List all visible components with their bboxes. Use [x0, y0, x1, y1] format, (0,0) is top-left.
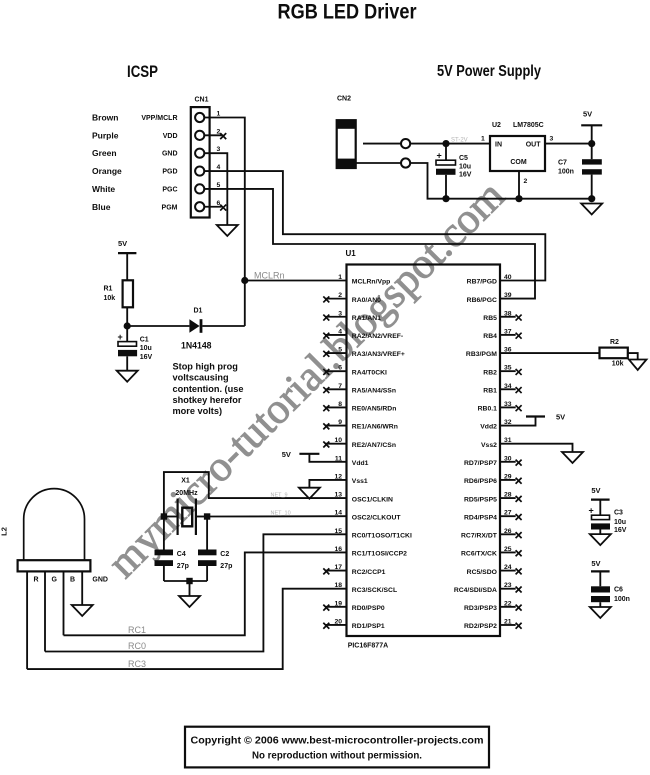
wire CN1 pin1 VPP/MCLR to MCLRn node (down to D1 wire) [204, 118, 245, 327]
note text about programming voltage [173, 362, 244, 417]
U1 pin 9 RE1/AN6/WRn (left stub, number, name) [323, 419, 398, 431]
U1 pin 40 RB7/PGD (right stub, number, name) [467, 274, 512, 286]
U1 pin 21 RD2/PSP2 (right stub, number, name) [464, 618, 522, 630]
wire LED B lead down to RC1 [63, 571, 65, 635]
5V supply symbol above R1 [118, 239, 136, 253]
svg-text:3: 3 [217, 146, 221, 153]
svg-text:RB4: RB4 [483, 333, 497, 340]
wire LED R lead down to RC3 [26, 571, 28, 669]
svg-text:5V: 5V [591, 559, 600, 568]
regulator U2 LM7805C [490, 136, 545, 171]
svg-text:C7: C7 [558, 159, 567, 166]
svg-text:Stop high prog: Stop high prog [173, 362, 238, 372]
svg-text:U2: U2 [492, 122, 501, 129]
watermark mymicro-tutorial.blogspot.com [99, 172, 514, 587]
CN1 pin 6 stub with no-connect X [204, 205, 226, 211]
capacitor C3 (electrolytic) [589, 500, 611, 534]
svg-text:10: 10 [334, 437, 342, 444]
C5 labels [459, 155, 472, 179]
svg-text:R2: R2 [610, 339, 619, 346]
wire CN1 pin3 GND to ground [204, 153, 227, 225]
svg-text:MCLRn/Vpp: MCLRn/Vpp [352, 279, 391, 286]
junction COM on ground rail [515, 195, 522, 202]
connector CN1 [191, 107, 210, 217]
C7 labels [558, 159, 574, 175]
U1 pin 17 RC2/CCP1 (left stub, number, name) [323, 564, 385, 576]
svg-text:RC2/CCP1: RC2/CCP1 [352, 569, 386, 576]
wire R1 bottom to junction [126, 307, 128, 326]
U1 pin 19 RD0/PSP0 (left stub, number, name) [323, 600, 385, 612]
R2 labels [610, 339, 624, 368]
U1 pin 14 OSC2/CLKOUT (left stub, number, name) [334, 510, 401, 522]
wire U1 pin 31 Vss2 to ground [500, 444, 573, 452]
U1 pin 35 RB2 (right stub, number, name) [483, 365, 521, 377]
svg-text:21: 21 [504, 618, 512, 625]
capacitor C7 100n [582, 144, 602, 199]
U1 pin 32 Vdd2 (right stub, number, name) [480, 419, 512, 431]
svg-text:RE2/AN7/CSn: RE2/AN7/CSn [352, 442, 396, 449]
svg-text:26: 26 [504, 528, 512, 535]
svg-text:+: + [118, 332, 123, 342]
wire 5V to U1 pin 32 [500, 417, 536, 426]
5V supply symbol above C6 [591, 559, 610, 571]
svg-text:9: 9 [338, 419, 342, 426]
svg-text:RA2/AN2/VREF-: RA2/AN2/VREF- [352, 333, 403, 340]
resistor R1 [123, 280, 133, 307]
svg-text:RA5/AN4/SSn: RA5/AN4/SSn [352, 387, 396, 394]
svg-text:39: 39 [504, 292, 512, 299]
wire junction to D1 anode [127, 325, 189, 327]
U1 pin 36 RB3/PGM (right stub, number, name) [466, 347, 512, 359]
svg-text:RD1/PSP1: RD1/PSP1 [352, 623, 385, 630]
svg-text:5V: 5V [556, 413, 565, 422]
U1 pin 26 RC7/RX/DT (right stub, number, name) [461, 528, 522, 540]
svg-text:Copyright © 2006 www.best-micr: Copyright © 2006 www.best-microcontrolle… [191, 736, 484, 747]
U1 pin 10 RE2/AN7/CSn (left stub, number, name) [323, 437, 396, 449]
C4 labels [177, 551, 189, 570]
U1 pin 25 RC6/TX/CK (right stub, number, name) [461, 546, 522, 558]
svg-text:Orange: Orange [92, 166, 122, 176]
wire U1 pin 14 OSC2 to crystal right [207, 515, 346, 517]
svg-text:RC5/SDO: RC5/SDO [467, 569, 497, 576]
svg-text:MCLRn: MCLRn [254, 271, 285, 281]
svg-text:Brown: Brown [92, 113, 118, 123]
5V supply symbol above C3 [591, 486, 610, 500]
svg-text:RD0/PSP0: RD0/PSP0 [352, 605, 385, 612]
svg-text:22: 22 [504, 600, 512, 607]
U1 pin 23 RC4/SDI/SDA (right stub, number, name) [454, 582, 522, 594]
capacitor C4 27p [155, 517, 174, 582]
U1 pin 30 RD7/PSP7 (right stub, number, name) [464, 455, 522, 467]
ground symbol below LED [72, 605, 93, 616]
svg-text:5V Power Supply: 5V Power Supply [437, 63, 541, 80]
svg-text:GND: GND [162, 151, 178, 158]
wire D1 cathode to MCLRn junction [202, 325, 244, 327]
svg-text:8: 8 [338, 401, 342, 408]
U2 labels [492, 122, 544, 129]
wire 5V bar to R1 top [126, 253, 128, 280]
svg-text:NET_9: NET_9 [271, 493, 288, 499]
svg-text:6: 6 [338, 365, 342, 372]
svg-text:C3: C3 [614, 510, 623, 517]
wire CN1 pin4 PGD to U1 pin40 RB7/PGD [204, 171, 545, 280]
svg-text:10k: 10k [104, 295, 116, 302]
svg-text:10k: 10k [612, 361, 624, 368]
U1 pin 1 MCLRn/Vpp (left stub, number, name) [338, 274, 390, 286]
U1 pin 7 RA5/AN4/SSn (left stub, number, name) [323, 383, 396, 395]
svg-text:R: R [34, 577, 39, 584]
svg-text:RC1/T1OSI/CCP2: RC1/T1OSI/CCP2 [352, 551, 407, 558]
svg-text:Vss2: Vss2 [481, 442, 497, 449]
svg-text:100n: 100n [614, 596, 630, 603]
capacitor C1 (electrolytic) [118, 326, 138, 371]
junction node R1/C1/D1 [124, 322, 131, 329]
svg-text:RC6/TX/CK: RC6/TX/CK [461, 551, 497, 558]
svg-text:+: + [437, 151, 442, 161]
junction crystal left node [161, 513, 167, 519]
U1 pin 37 RB4 (right stub, number, name) [483, 328, 521, 340]
X1 labels [175, 478, 198, 497]
svg-text:voltscausing: voltscausing [173, 373, 229, 383]
IC U1 box [347, 265, 501, 637]
svg-text:2: 2 [524, 178, 528, 185]
svg-text:10u: 10u [614, 519, 626, 526]
svg-text:RC3: RC3 [128, 659, 146, 669]
svg-text:C4: C4 [177, 551, 186, 558]
svg-text:37: 37 [504, 328, 512, 335]
svg-text:Vdd2: Vdd2 [480, 424, 497, 431]
svg-text:100n: 100n [558, 168, 574, 175]
svg-text:RB2: RB2 [483, 369, 497, 376]
svg-text:B: B [70, 577, 75, 584]
terminal circle top [401, 139, 410, 148]
svg-text:16V: 16V [459, 172, 472, 179]
svg-text:RB7/PGD: RB7/PGD [467, 279, 497, 286]
svg-text:RD2/PSP2: RD2/PSP2 [464, 623, 497, 630]
junction crystal ground center [186, 578, 192, 584]
junction crystal right node [204, 513, 210, 519]
svg-text:PGD: PGD [162, 169, 177, 176]
wire 5V to U1 pin 11 [309, 454, 346, 462]
wire CN2 minus to terminal circle bottom [356, 162, 401, 164]
U1 pin 22 RD3/PSP3 (right stub, number, name) [464, 600, 522, 612]
ground symbol power supply [581, 204, 602, 215]
svg-text:C2: C2 [220, 551, 229, 558]
wire U1 pin 16 RC1 to LED B lead [64, 552, 347, 635]
svg-text:RC0: RC0 [128, 641, 146, 651]
U1 pin 39 RB6/PGC (right stub, number, name) [467, 292, 512, 304]
junction C5 top [442, 140, 449, 147]
svg-text:VDD: VDD [163, 133, 178, 140]
CN1 signal name labels [141, 115, 177, 211]
svg-text:COM: COM [510, 159, 527, 166]
svg-text:RB6/PGC: RB6/PGC [467, 297, 497, 304]
svg-text:No reproduction without permis: No reproduction without permission. [252, 751, 422, 762]
svg-text:35: 35 [504, 365, 512, 372]
U1 pin 11 Vdd1 (left stub, number, name) [335, 455, 369, 467]
ground symbol below C6 [590, 607, 611, 618]
svg-text:3: 3 [550, 136, 554, 143]
svg-text:RD3/PSP3: RD3/PSP3 [464, 605, 497, 612]
svg-text:29: 29 [504, 473, 512, 480]
wire U1 pin 15 RC0 to LED G lead [45, 534, 347, 651]
svg-text:16V: 16V [140, 354, 153, 361]
svg-text:20: 20 [334, 618, 342, 625]
CN1 pin 2 stub with no-connect X [204, 133, 226, 139]
svg-text:17: 17 [334, 564, 342, 571]
U1 pin 6 RA4/T0CKI (left stub, number, name) [323, 365, 387, 377]
C3 labels [614, 510, 627, 535]
U1 pin 15 RC0/T1OSO/T1CKI (left stub, number, name) [334, 528, 412, 540]
svg-text:RE0/AN5/RDn: RE0/AN5/RDn [352, 406, 397, 413]
wire U1 pin 36 RB3/PGM to R2 [500, 352, 600, 354]
capacitor C6 100n [591, 571, 610, 607]
svg-text:RB5: RB5 [483, 315, 497, 322]
svg-text:RA4/T0CKI: RA4/T0CKI [352, 369, 387, 376]
svg-text:25: 25 [504, 546, 512, 553]
svg-text:38: 38 [504, 310, 512, 317]
wire crystal ground rail [164, 580, 207, 582]
wire MCLRn node to U1 pin1 [245, 280, 347, 282]
wire down to crystal ground [189, 581, 191, 596]
svg-text:2: 2 [338, 292, 342, 299]
L2 label (rotated) [0, 527, 9, 536]
CN1 wire color labels [92, 113, 122, 212]
LED L2 body [18, 489, 91, 572]
wire U2 COM to ground rail [518, 171, 520, 199]
svg-text:Green: Green [92, 148, 117, 158]
svg-text:1: 1 [481, 136, 485, 143]
wire CN2 plus to terminal circle [363, 143, 401, 145]
U1 pin 4 RA2/AN2/VREF- (left stub, number, name) [323, 328, 403, 340]
svg-text:LM7805C: LM7805C [513, 122, 544, 129]
svg-text:1: 1 [217, 111, 221, 118]
svg-text:RA0/AN0: RA0/AN0 [352, 297, 381, 304]
U1 pin 38 RB5 (right stub, number, name) [483, 310, 521, 322]
wire bottom terminal to ground rail [410, 163, 592, 199]
svg-text:28: 28 [504, 492, 512, 499]
svg-text:RC1: RC1 [128, 625, 146, 635]
svg-text:30: 30 [504, 455, 512, 462]
svg-text:RB0.1: RB0.1 [478, 406, 497, 413]
U1 pin 27 RD4/PSP4 (right stub, number, name) [464, 510, 522, 522]
5V supply symbol power rail [581, 110, 602, 126]
U1 pin 8 RE0/AN5/RDn (left stub, number, name) [323, 401, 396, 413]
terminal circle bottom [401, 158, 410, 167]
svg-text:RD5/PSP5: RD5/PSP5 [464, 496, 497, 503]
svg-text:24: 24 [504, 564, 512, 571]
svg-text:5: 5 [338, 347, 342, 354]
svg-text:C6: C6 [614, 587, 623, 594]
ground symbol right of R2 [629, 360, 647, 371]
U1 pin 3 RA1/AN1 (left stub, number, name) [323, 310, 381, 322]
svg-text:RE1/AN6/WRn: RE1/AN6/WRn [352, 424, 398, 431]
svg-text:G: G [52, 577, 58, 584]
svg-text:3: 3 [338, 310, 342, 317]
wire U1 pin 13 OSC1 to crystal left (top loop) [164, 472, 347, 516]
U1 pin 18 RC3/SCK/SCL (left stub, number, name) [334, 582, 397, 594]
wire terminal to C5/U2 IN [410, 143, 490, 145]
junction C7 bottom / rail end [588, 195, 595, 202]
svg-text:White: White [92, 184, 115, 194]
svg-text:4: 4 [338, 328, 342, 335]
junction C5 bottom on ground rail [442, 195, 449, 202]
svg-text:VPP/MCLR: VPP/MCLR [141, 115, 177, 122]
U1 pin 29 RD6/PSP6 (right stub, number, name) [464, 473, 522, 485]
svg-text:CN2: CN2 [337, 96, 351, 103]
svg-text:19: 19 [334, 600, 342, 607]
svg-text:shotkey herefor: shotkey herefor [173, 395, 242, 405]
svg-text:ICSP: ICSP [127, 62, 158, 81]
ground symbol below C1 [117, 371, 138, 382]
svg-text:RC3/SCK/SCL: RC3/SCK/SCL [352, 587, 397, 594]
svg-text:more volts): more volts) [173, 406, 223, 416]
copyright box [185, 727, 489, 768]
svg-text:27p: 27p [177, 563, 189, 570]
U1 pin 12 Vss1 (left stub, number, name) [334, 473, 367, 485]
U1 pin 24 RC5/SDO (right stub, number, name) [467, 564, 522, 576]
crystal X1 [164, 499, 207, 536]
svg-text:Blue: Blue [92, 202, 111, 212]
wire R2 to ground [628, 353, 638, 359]
svg-text:X1: X1 [181, 478, 190, 485]
svg-text:27: 27 [504, 510, 512, 517]
svg-text:D1: D1 [194, 308, 203, 315]
ground symbol below C3 [590, 534, 611, 545]
U1 pin 16 RC1/T1OSI/CCP2 (left stub, number, name) [334, 546, 407, 558]
svg-text:OUT: OUT [526, 141, 542, 148]
connector CN2 (DC input) [337, 120, 356, 168]
svg-text:OSC1/CLKIN: OSC1/CLKIN [352, 496, 393, 503]
svg-text:RD7/PSP7: RD7/PSP7 [464, 460, 497, 467]
svg-text:OSC2/CLKOUT: OSC2/CLKOUT [352, 514, 402, 521]
svg-text:5V: 5V [583, 110, 592, 119]
svg-text:4: 4 [217, 164, 221, 171]
ground symbol below crystal [179, 596, 200, 607]
svg-text:RD6/PSP6: RD6/PSP6 [464, 478, 497, 485]
svg-text:L2: L2 [0, 527, 9, 536]
svg-text:34: 34 [504, 383, 512, 390]
svg-text:5V: 5V [118, 239, 127, 248]
svg-text:PGM: PGM [162, 204, 178, 211]
svg-text:RC0/T1OSO/T1CKI: RC0/T1OSO/T1CKI [352, 533, 412, 540]
capacitor C5 (electrolytic) [436, 144, 456, 199]
U2 pin names IN OUT COM [495, 141, 541, 166]
svg-text:RC4/SDI/SDA: RC4/SDI/SDA [454, 587, 497, 594]
svg-text:23: 23 [504, 582, 512, 589]
svg-text:1: 1 [338, 274, 342, 281]
svg-text:Purple: Purple [92, 130, 119, 140]
U1 pin 28 RD5/PSP5 (right stub, number, name) [464, 492, 522, 504]
svg-text:27p: 27p [220, 563, 232, 570]
svg-text:PGC: PGC [162, 186, 177, 193]
svg-text:33: 33 [504, 401, 512, 408]
diode D1 1N4148 [189, 319, 202, 333]
svg-text:1N4148: 1N4148 [181, 341, 212, 352]
svg-text:5V: 5V [282, 450, 291, 459]
wire 5V bar down to OUT node [591, 125, 593, 143]
svg-text:RC7/RX/DT: RC7/RX/DT [461, 533, 498, 540]
svg-text:40: 40 [504, 274, 512, 281]
svg-text:Vdd1: Vdd1 [352, 460, 369, 467]
LED lead labels R G B GND [34, 577, 108, 584]
svg-text:R1: R1 [104, 285, 113, 292]
svg-text:6: 6 [217, 200, 221, 207]
svg-text:20MHz: 20MHz [175, 490, 198, 497]
U2 pin numbers [481, 136, 554, 186]
wire LED G lead down to RC0 [44, 571, 46, 651]
svg-text:RA1/AN1: RA1/AN1 [352, 315, 381, 322]
svg-text:16V: 16V [614, 527, 627, 534]
R1 labels [104, 285, 116, 302]
svg-text:RA3/AN3/VREF+: RA3/AN3/VREF+ [352, 351, 405, 358]
capacitor C2 27p [198, 517, 217, 582]
svg-text:RB1: RB1 [483, 387, 497, 394]
U1 pin 2 RA0/AN0 (left stub, number, name) [323, 292, 381, 304]
svg-text:NET_10: NET_10 [271, 511, 291, 517]
svg-text:CN1: CN1 [194, 97, 208, 104]
junction node MCLRn [241, 277, 248, 284]
svg-text:RGB LED Driver: RGB LED Driver [278, 1, 417, 24]
svg-text:7: 7 [338, 383, 342, 390]
svg-text:+: + [589, 506, 594, 516]
U1 pin 33 RB0.1 (right stub, number, name) [478, 401, 522, 413]
wire CN1 pin5 PGC to U1 pin39 RB6/PGC [204, 189, 535, 299]
svg-text:10u: 10u [459, 163, 471, 170]
5V supply symbol for U1 pin 32 Vdd2 [526, 413, 565, 422]
wire U2 OUT to 5V node [545, 143, 592, 145]
resistor R2 [600, 348, 628, 359]
svg-text:ST-2V: ST-2V [451, 138, 468, 144]
svg-text:5V: 5V [591, 486, 600, 495]
5V supply symbol for U1 pin 11 Vdd1 [282, 450, 320, 459]
ground symbol for U1 pin 12 [299, 488, 320, 499]
wire U1 pin 18 RC3 to LED R lead [27, 589, 346, 669]
svg-text:C5: C5 [459, 155, 468, 162]
C6 labels [614, 587, 630, 604]
svg-text:GND: GND [92, 577, 108, 584]
svg-text:RD4/PSP4: RD4/PSP4 [464, 514, 497, 521]
wire LED GND lead down [81, 571, 83, 605]
svg-text:RB3/PGM: RB3/PGM [466, 351, 497, 358]
svg-text:5: 5 [217, 182, 221, 189]
U1 pin 5 RA3/AN3/VREF+ (left stub, number, name) [323, 347, 405, 359]
U1 pin 20 RD1/PSP1 (left stub, number, name) [323, 618, 385, 630]
ground symbol below CN1 [217, 225, 238, 236]
svg-text:C1: C1 [140, 337, 149, 344]
U1 pin 13 OSC1/CLKIN (left stub, number, name) [334, 492, 393, 504]
U1 pin 31 Vss2 (right stub, number, name) [481, 437, 512, 449]
svg-text:contention. (use: contention. (use [173, 384, 244, 394]
C1 labels [140, 337, 153, 362]
svg-text:Vss1: Vss1 [352, 478, 368, 485]
svg-text:IN: IN [495, 141, 502, 148]
ground symbol for U1 pin 31 [562, 452, 583, 463]
wire U1 pin 12 Vss1 to ground [309, 480, 346, 488]
svg-text:PIC16F877A: PIC16F877A [348, 643, 388, 650]
svg-text:U1: U1 [346, 249, 357, 258]
CN1 pin numbers 1-6 [217, 111, 221, 207]
junction OUT/C7 top [588, 140, 595, 147]
svg-text:2: 2 [217, 128, 221, 135]
U1 pin 34 RB1 (right stub, number, name) [483, 383, 521, 395]
svg-text:10u: 10u [140, 345, 152, 352]
C2 labels [220, 551, 232, 570]
